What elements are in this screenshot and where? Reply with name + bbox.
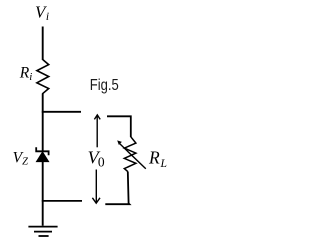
resistor Ri <box>37 60 49 94</box>
label Ri <box>19 65 33 83</box>
RL wiper arrow <box>117 140 146 168</box>
wire top lead of RL <box>107 116 131 137</box>
wire bottom node to V0 arrow <box>42 200 82 202</box>
zener diode VZ cathode bar <box>36 147 48 155</box>
resistor RL (variable) <box>124 137 136 172</box>
wire Vi to Ri <box>42 27 44 61</box>
wire bottom lead of RL <box>105 172 129 205</box>
wire Ri to zener node <box>42 94 44 152</box>
svg-text:RL: RL <box>148 147 167 170</box>
svg-text:VZ: VZ <box>13 149 28 167</box>
svg-text:V0: V0 <box>88 148 105 170</box>
V0 measurement arrow down <box>92 170 100 204</box>
node Vi (input label) <box>35 2 49 22</box>
label VZ <box>13 149 28 167</box>
svg-text:Ri: Ri <box>19 65 33 83</box>
label RL <box>148 147 167 170</box>
label V0 <box>88 148 105 170</box>
label Fig.5 <box>90 77 119 94</box>
wire top node to V0 arrow <box>42 111 81 113</box>
svg-text:Vi: Vi <box>35 2 49 22</box>
svg-text:Fig.5: Fig.5 <box>90 77 119 94</box>
V0 measurement arrow up <box>94 115 100 147</box>
wire zener to ground <box>42 162 44 226</box>
zener diode VZ anode triangle <box>36 152 49 162</box>
ground <box>28 227 57 236</box>
